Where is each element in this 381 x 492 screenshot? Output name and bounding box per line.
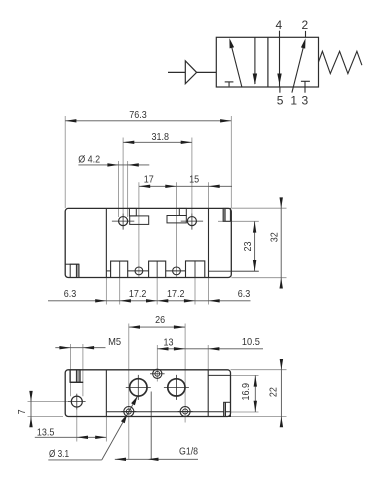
dim line 23 bbox=[254, 221, 256, 271]
bottom port hole 2 bbox=[173, 267, 181, 275]
pilot to box line bbox=[197, 71, 217, 73]
svg-text:22: 22 bbox=[268, 387, 280, 397]
ext 22 / 16.9 bottom bbox=[231, 411, 259, 413]
internal partition right bbox=[207, 370, 209, 417]
ext 10.5 right bbox=[207, 345, 209, 370]
arrows 10.5 bbox=[208, 347, 219, 350]
leader G1/8 horizontal bbox=[115, 458, 198, 460]
dim line 16.9 bbox=[254, 375, 256, 412]
svg-text:3: 3 bbox=[302, 94, 309, 108]
svg-text:7: 7 bbox=[16, 409, 28, 414]
arrow G1/8 bbox=[115, 458, 126, 461]
ext bottom port2 vertical bbox=[176, 182, 178, 277]
ext 7 top bbox=[28, 401, 69, 403]
dim line 26 bbox=[129, 326, 185, 328]
ext hole dia left bbox=[118, 161, 120, 217]
left cell vertical flow line bbox=[254, 37, 256, 84]
ext 15 right bbox=[208, 182, 210, 208]
bottom tab 2 bbox=[149, 261, 166, 277]
ext 13.5 right bbox=[105, 417, 107, 442]
arrows 23 bbox=[253, 221, 256, 232]
dim line 31.8 bbox=[123, 141, 192, 143]
ext hole1 center 31.8 bbox=[122, 138, 124, 214]
arrow dia3.1 at ring bbox=[121, 414, 127, 423]
svg-text:6.3: 6.3 bbox=[238, 288, 251, 300]
ext 13.5 left bbox=[76, 410, 78, 442]
valve body box bbox=[216, 37, 318, 87]
svg-text:15: 15 bbox=[189, 174, 199, 186]
corner block top right bbox=[223, 208, 225, 221]
arrow dia3.1 at big circle bottom bbox=[131, 396, 137, 405]
left cell diagonal flow arrow bbox=[231, 46, 242, 88]
leader dia 3.1 underline bbox=[48, 459, 102, 461]
top threaded ring bbox=[150, 369, 165, 378]
left cell blocked port T bbox=[225, 81, 234, 83]
internal partition right bbox=[208, 208, 210, 277]
svg-text:16.9: 16.9 bbox=[240, 383, 252, 401]
position divider bbox=[267, 37, 269, 87]
arrowhead left diagonal bbox=[229, 38, 234, 48]
ext right edge 76.3 bbox=[230, 116, 232, 208]
dim line 13 and 10.5 bbox=[157, 348, 263, 350]
mounting hole 1 bbox=[112, 213, 203, 275]
svg-text:G1/8: G1/8 bbox=[179, 446, 198, 458]
arrows 22 outside bbox=[280, 359, 283, 370]
dimension texts bbox=[16, 314, 280, 460]
step block A2 bbox=[179, 208, 186, 215]
arrows 13 bbox=[157, 347, 168, 350]
svg-text:M5: M5 bbox=[108, 336, 121, 348]
svg-text:13.5: 13.5 bbox=[37, 426, 55, 438]
svg-text:26: 26 bbox=[155, 314, 165, 326]
dim line 7 bbox=[30, 391, 32, 427]
ext hole dia right bbox=[127, 161, 129, 217]
svg-text:10.5: 10.5 bbox=[242, 336, 260, 348]
ext hole2 center 31.8 bbox=[191, 138, 193, 214]
internal partition left bbox=[105, 370, 107, 417]
bottom tab 3 bbox=[186, 261, 205, 278]
corner block bottom left bbox=[76, 264, 79, 277]
svg-text:17: 17 bbox=[144, 174, 154, 186]
svg-text:32: 32 bbox=[268, 232, 280, 242]
port labels bbox=[276, 18, 309, 108]
svg-text:Ø 4.2: Ø 4.2 bbox=[78, 153, 100, 165]
ext bottom port1 vertical bbox=[138, 182, 140, 277]
dim line 17 / 15 bbox=[139, 185, 232, 187]
dimension arrowheads bbox=[65, 119, 283, 302]
pilot triangle bbox=[185, 61, 196, 84]
ext M5 left bbox=[70, 344, 72, 396]
ext 22 top bbox=[231, 369, 287, 371]
arrows 7 outside bbox=[29, 391, 32, 402]
arrows 6.3 right outside bbox=[209, 299, 220, 302]
ext 32 bottom bbox=[231, 277, 286, 279]
main port circle 2 G1/8 bbox=[168, 379, 185, 396]
side hole M5 left bbox=[68, 394, 86, 410]
recess line bottom bbox=[106, 411, 230, 413]
body outline top view bbox=[65, 208, 259, 277]
extension lines (gray) bbox=[65, 116, 286, 305]
slot top left bbox=[70, 370, 83, 382]
internal partition left bbox=[105, 208, 107, 277]
port 5 stub bbox=[279, 87, 281, 93]
svg-text:6.3: 6.3 bbox=[64, 288, 77, 300]
arrows 26 bbox=[129, 325, 140, 328]
arrowhead diagonal 1-2 up bbox=[301, 38, 306, 48]
arrowheads bbox=[29, 325, 283, 461]
dim line bottom row bbox=[48, 300, 251, 302]
dim line M5 bbox=[55, 347, 105, 349]
svg-text:31.8: 31.8 bbox=[151, 131, 169, 143]
arrows 76.3 bbox=[65, 119, 76, 122]
svg-text:1: 1 bbox=[290, 94, 297, 108]
dimension lines (darker) bbox=[48, 121, 281, 301]
arrows 13.5 bbox=[77, 436, 88, 439]
main port circle 1 G1/8 bbox=[126, 375, 189, 400]
arrows 15 bbox=[209, 185, 220, 188]
bottom port hole 1 bbox=[135, 267, 143, 275]
mounting hole 2 bbox=[187, 217, 196, 226]
bottom tab 1 bbox=[111, 261, 128, 277]
leader dia 3.1 diagonal bbox=[102, 396, 138, 460]
dimension texts bbox=[64, 109, 281, 300]
arrows 6.3 left outside bbox=[95, 299, 106, 302]
recess line top right bbox=[208, 374, 230, 376]
ext M5 right bbox=[82, 344, 84, 396]
arrows 16.9 bbox=[254, 375, 257, 386]
svg-text:76.3: 76.3 bbox=[129, 109, 147, 121]
corner block bottom right bbox=[224, 402, 231, 416]
port 3 stub bbox=[304, 81, 306, 92]
right cell diagonal flow line 1-2 bbox=[292, 47, 304, 93]
arrows dia4.2 outside bbox=[107, 163, 118, 166]
ext left edge 76.3 bbox=[64, 116, 66, 208]
port 4 flow line bbox=[279, 31, 281, 87]
bottom ring 2 bbox=[180, 407, 190, 417]
return spring bbox=[319, 51, 362, 73]
svg-text:4: 4 bbox=[276, 18, 283, 32]
ext 32 top bbox=[231, 207, 286, 209]
leader G1/8 vertical bbox=[150, 392, 152, 460]
arrows 17 bbox=[139, 185, 150, 188]
bottom recess line segments bbox=[106, 270, 110, 272]
ext 16.9 top bbox=[231, 374, 259, 376]
svg-text:17.2: 17.2 bbox=[167, 288, 185, 300]
arrows 17.2 bbox=[146, 299, 157, 302]
ext bottom dims verticals bbox=[105, 278, 107, 305]
svg-text:23: 23 bbox=[242, 241, 254, 251]
extension lines gray bbox=[28, 324, 287, 460]
dim line 13.5 bbox=[35, 436, 107, 438]
dim line 22 bbox=[280, 360, 282, 427]
step block A1 bbox=[129, 208, 136, 216]
svg-text:13: 13 bbox=[164, 336, 174, 348]
port 2 stub bbox=[305, 31, 307, 37]
dim line dia 4.2 bbox=[78, 164, 149, 166]
step block B1 bbox=[130, 216, 149, 225]
svg-text:17.2: 17.2 bbox=[129, 288, 147, 300]
pilot line left bbox=[168, 71, 185, 73]
arrowhead port4 down bbox=[277, 74, 281, 85]
dim line 32 bbox=[280, 198, 282, 288]
ext ring1 vertical 26 bbox=[128, 324, 130, 460]
svg-text:Ø 3.1: Ø 3.1 bbox=[49, 448, 69, 460]
bottom ring 1 bbox=[121, 407, 192, 417]
body outline bottom view bbox=[65, 370, 230, 417]
ext ring2 vertical 26 bbox=[184, 324, 186, 423]
right cell blocked port T bbox=[301, 80, 310, 82]
arrows 31.8 bbox=[123, 141, 134, 144]
arrowhead left vertical down bbox=[253, 74, 257, 85]
ext top ring vertical 13 bbox=[156, 345, 158, 382]
dim line 76.3 bbox=[65, 120, 231, 122]
dimension lines bbox=[31, 327, 281, 460]
ext 23 top bbox=[218, 220, 259, 222]
svg-text:5: 5 bbox=[277, 94, 284, 108]
ext 7 bottom bbox=[28, 416, 64, 418]
svg-text:2: 2 bbox=[302, 18, 309, 32]
step block B2 bbox=[167, 216, 186, 223]
arrows M5 outside bbox=[59, 346, 70, 349]
arrows 32 outside bbox=[280, 197, 283, 208]
